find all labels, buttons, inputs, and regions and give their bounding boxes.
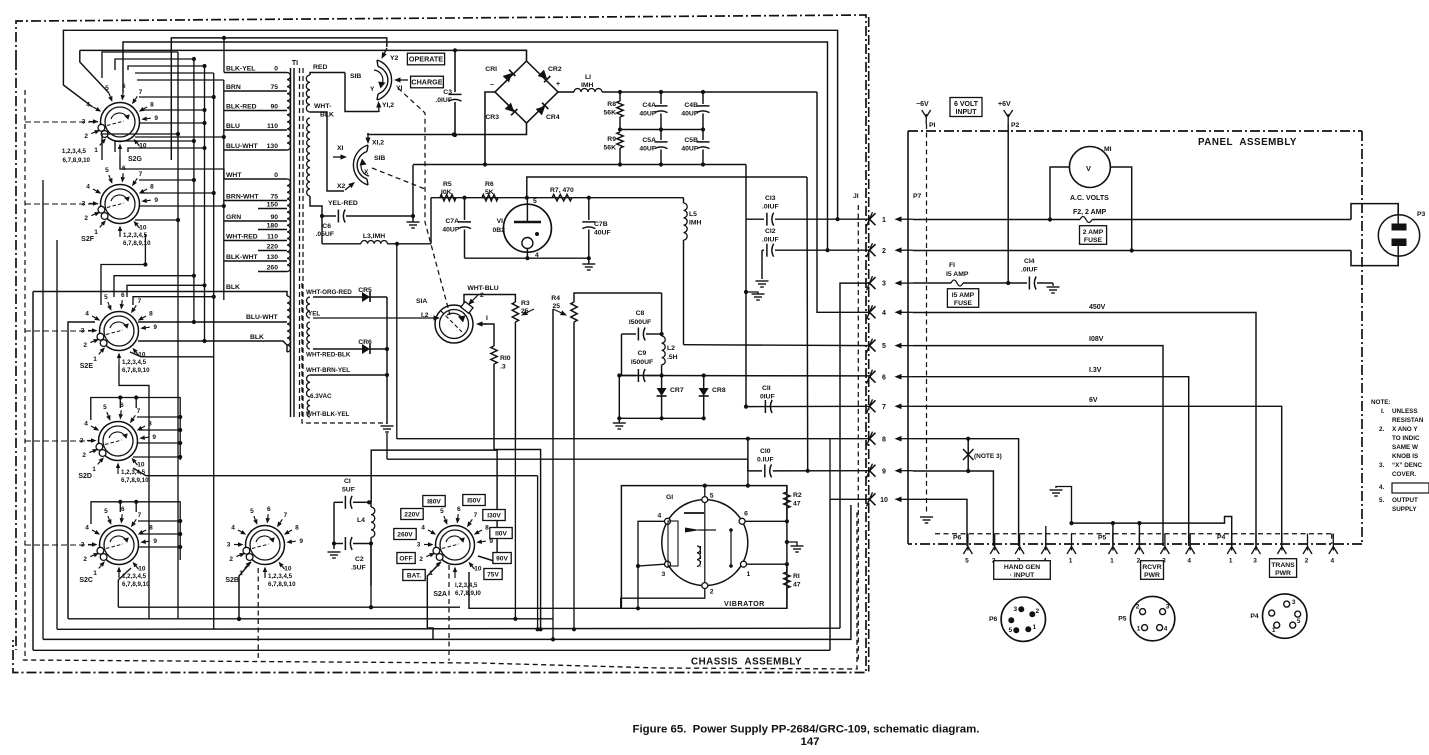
svg-text:75: 75 (270, 194, 278, 201)
S2C mech dashed (25, 544, 97, 546)
wire G1 pin1 right (747, 562, 790, 566)
svg-text:C8: C8 (636, 310, 645, 317)
T1 primary tap GRN (224, 214, 287, 221)
svg-text:OUTPUT: OUTPUT (1392, 497, 1418, 504)
svg-text:2: 2 (229, 556, 233, 563)
S2A position label 220V (401, 509, 423, 520)
S1A contact 2 arrow (468, 292, 484, 305)
G1 pin 3 (662, 561, 671, 578)
transformer T1 label (292, 60, 298, 67)
svg-text:S2F: S2F (81, 236, 95, 243)
svg-text:7: 7 (284, 512, 288, 519)
svg-text:40UF: 40UF (681, 111, 698, 118)
svg-text:RESISTAN: RESISTAN (1392, 417, 1424, 424)
svg-text:7: 7 (882, 404, 886, 411)
svg-text:2: 2 (480, 292, 484, 299)
plug P3 body (1351, 204, 1398, 266)
svg-text:VIBRATOR: VIBRATOR (724, 599, 765, 608)
svg-text:WHT-BLU: WHT-BLU (467, 285, 498, 292)
svg-text:1: 1 (94, 147, 98, 154)
P4 pin 4 (1329, 534, 1338, 565)
J1 pin 4 (867, 305, 914, 319)
svg-text:220: 220 (267, 244, 279, 251)
svg-text:4: 4 (1187, 558, 1191, 565)
capacitor C5A 40UF (639, 130, 667, 165)
svg-text:WHT-RED: WHT-RED (226, 234, 258, 241)
switch S1B section X arcs (353, 145, 368, 185)
P3 label (1417, 211, 1426, 218)
svg-text:9: 9 (882, 468, 886, 475)
ground P6-1 (1050, 487, 1072, 524)
T1 primary tap BRN 75 (224, 84, 287, 91)
svg-text:56K: 56K (604, 110, 617, 117)
left long wire d (42, 180, 44, 639)
svg-text:F2, 2 AMP: F2, 2 AMP (1073, 209, 1107, 216)
svg-text:I,2: I,2 (421, 312, 429, 319)
transformer T1 secondary winding YEL/WHT-RED-BLK (307, 322, 310, 349)
junction B+ R8 (618, 90, 622, 94)
svg-text:TO INDIC: TO INDIC (1392, 435, 1420, 442)
svg-text:C5A: C5A (642, 137, 656, 144)
svg-text:5: 5 (1008, 627, 1012, 634)
junction mid C5A (659, 127, 663, 131)
svg-text:5.: 5. (1379, 497, 1385, 504)
svg-text:P5: P5 (1118, 616, 1127, 623)
svg-text:P5: P5 (1098, 535, 1107, 542)
junction note3 bottom (966, 469, 970, 473)
left long wire e (56, 240, 58, 629)
junction CR8 top (702, 373, 706, 377)
svg-text:5: 5 (965, 558, 969, 565)
ground at C2 (328, 544, 341, 559)
svg-text:90V: 90V (496, 555, 508, 562)
contact X2 arrow (327, 118, 355, 191)
S2F mech dashed (25, 203, 98, 205)
ground at C12 (756, 281, 769, 287)
svg-text:1: 1 (882, 217, 886, 224)
svg-text:5: 5 (882, 343, 886, 350)
svg-text:P2: P2 (1011, 122, 1020, 129)
svg-text:4: 4 (421, 525, 425, 532)
S2G hook c4 (102, 52, 178, 78)
junction C6 left (320, 214, 324, 218)
svg-text:1: 1 (1110, 558, 1114, 565)
svg-text:6: 6 (267, 506, 271, 513)
2 AMP FUSE box (1080, 226, 1107, 245)
wire P5-2 drop (1138, 523, 1140, 546)
bottom bus 607 (118, 606, 460, 608)
wire C12 ground leg (761, 250, 763, 279)
wire pin9 rail C10 (748, 439, 870, 478)
P6 pin 1 (1067, 534, 1076, 565)
wire YEL to S1A (313, 315, 440, 320)
svg-text:1: 1 (94, 229, 98, 236)
diode CR3 (485, 103, 517, 121)
wire pin2 panel (913, 250, 1351, 252)
svg-text:6: 6 (744, 510, 748, 517)
svg-text:10: 10 (139, 224, 147, 231)
junction pin5 box (703, 484, 707, 488)
secondary rectifier bus (386, 297, 388, 424)
meter leads (1050, 167, 1132, 251)
svg-text:0IUF: 0IUF (760, 394, 775, 401)
svg-text:10: 10 (284, 565, 292, 572)
transformer T1 primary winding lower (287, 296, 291, 352)
P4 pin 3 (1252, 534, 1261, 565)
P5 label (1098, 535, 1107, 542)
plug P2 (1004, 110, 1020, 129)
potentiometer R3 25 (512, 300, 534, 440)
svg-text:3: 3 (417, 542, 421, 549)
svg-text:I0K: I0K (441, 189, 452, 196)
svg-text:1: 1 (1069, 558, 1073, 565)
svg-text:COVER.: COVER. (1392, 471, 1416, 478)
G1 internal contact arrow (685, 528, 716, 533)
S2D header (91, 395, 180, 460)
svg-text:450V: 450V (1089, 304, 1106, 311)
svg-text:5: 5 (103, 404, 107, 411)
wire pin8 internal rail (397, 438, 870, 440)
svg-text:RI: RI (793, 573, 800, 580)
ground vibrator right (785, 540, 804, 552)
svg-text:4: 4 (1164, 626, 1168, 633)
svg-text:8: 8 (149, 525, 153, 532)
svg-text:47: 47 (793, 501, 801, 508)
svg-text:2: 2 (1136, 604, 1140, 611)
svg-text:−: − (490, 82, 494, 89)
junction C8 L2 top (660, 332, 664, 336)
svg-text:R4: R4 (551, 295, 560, 302)
svg-text:7: 7 (139, 171, 143, 178)
svg-text:3: 3 (882, 281, 886, 288)
wire C6 to B- bus riser (412, 165, 414, 216)
svg-text:I500UF: I500UF (631, 359, 653, 366)
wire pin1 panel with fuse F2 (913, 217, 1351, 223)
ground secondary bus (381, 426, 394, 432)
svg-text:VI: VI (497, 218, 504, 225)
wire P2 feed (1007, 124, 1009, 283)
svg-text:8: 8 (149, 311, 153, 318)
svg-text:7: 7 (474, 512, 478, 519)
note3 disconnect (963, 439, 1002, 471)
svg-text:IMH: IMH (689, 220, 702, 227)
J1 pin 6 (867, 370, 914, 384)
svg-text:3: 3 (1166, 604, 1170, 611)
contact Y2 arrow (382, 48, 399, 62)
S2 bank vertical buses (135, 52, 224, 629)
S2A position label I80V (423, 496, 445, 507)
mid rail 459 (387, 433, 750, 488)
G1 pin 2 (702, 583, 714, 596)
svg-text:WHT-RED-BLK: WHT-RED-BLK (306, 352, 351, 359)
svg-text:2: 2 (1035, 608, 1039, 615)
diode CR2 (538, 66, 562, 82)
15 AMP FUSE box (947, 289, 978, 308)
diode CR1 (485, 66, 515, 82)
junction CR6 bus (385, 347, 389, 351)
Y label (370, 86, 375, 93)
svg-text:II0V: II0V (495, 530, 507, 537)
P6 pin 5 (963, 534, 972, 565)
chassis border through J1 (868, 17, 870, 672)
wire G1 pin5 up (704, 486, 706, 497)
svg-text:110: 110 (267, 123, 278, 130)
svg-text:X2: X2 (337, 183, 346, 190)
capacitor C9 1500UF (619, 350, 661, 382)
wire pin4 internal 450V riser (817, 92, 870, 312)
svg-text:+6V: +6V (998, 101, 1011, 108)
svg-text:GI: GI (666, 494, 673, 501)
junction bus C5B (701, 162, 705, 166)
S2E wiper feed (119, 364, 149, 619)
svg-text:C4B: C4B (684, 102, 698, 109)
diode CR4 (536, 103, 560, 121)
svg-text:A.C. VOLTS: A.C. VOLTS (1070, 195, 1109, 202)
svg-text:CR8: CR8 (712, 387, 726, 394)
junction V1 pin4 (525, 256, 529, 260)
wire P5-1 drop (1112, 523, 1114, 546)
rotary switch S2G (62, 83, 158, 164)
S2G contact stubs (135, 95, 226, 139)
svg-text:YI,2: YI,2 (382, 102, 394, 109)
potentiometer R4 25 (551, 293, 661, 440)
svg-text:6,7,8,9,10: 6,7,8,9,10 (121, 477, 149, 484)
svg-text:1: 1 (747, 571, 751, 578)
junction routeB pin2 (825, 248, 829, 252)
svg-text:I.3V: I.3V (1089, 367, 1102, 374)
connector face P5 (1118, 596, 1175, 640)
svg-text:C6: C6 (322, 223, 331, 230)
svg-text:S2A: S2A (433, 591, 447, 598)
wire pin3 panel with fuse F1 (913, 280, 1027, 286)
wire C9 left vert (618, 376, 620, 419)
junction bus R9 (618, 162, 622, 166)
svg-text:I,2,3,4,5: I,2,3,4,5 (455, 582, 478, 589)
S1A contact 1,2 label (421, 312, 429, 319)
svg-text:UNLESS: UNLESS (1392, 408, 1418, 415)
G1 internal reed bar (684, 512, 704, 514)
svg-text:Y2: Y2 (390, 55, 399, 62)
switch S1B X rotor arrow (360, 159, 370, 177)
bridge plus label (556, 81, 560, 88)
S2C contact stubs (138, 519, 182, 549)
svg-text:5: 5 (1297, 618, 1301, 625)
capacitor C11 01UF (760, 385, 775, 413)
S2D mech dashed (25, 440, 96, 442)
T1 primary tap BRN-WHT (224, 194, 287, 201)
wire G1 pin2 down (621, 589, 705, 609)
svg-text:I5 AMP: I5 AMP (946, 271, 969, 278)
switch S1A (435, 305, 473, 343)
junction pin3 left (636, 564, 640, 568)
svg-text:.3: .3 (500, 364, 506, 371)
S2G hook c6 (128, 64, 207, 70)
svg-text:.05UF: .05UF (315, 231, 334, 238)
resistor R6 5K (482, 181, 498, 201)
transformer T1 primary winding middle (287, 179, 290, 272)
svg-text:2: 2 (710, 589, 714, 596)
svg-text:FI: FI (949, 262, 955, 269)
bottom dashed border (23, 510, 857, 669)
S2E mech dashed (25, 330, 97, 332)
svg-text:BLK: BLK (226, 284, 240, 291)
svg-text:2: 2 (82, 452, 86, 459)
junction V1 pin5 rail (525, 196, 529, 200)
svg-text:5UF: 5UF (342, 487, 355, 494)
svg-text:4: 4 (85, 311, 89, 318)
svg-text:L2: L2 (667, 345, 675, 352)
svg-text:6,7,8,9,10: 6,7,8,9,10 (123, 240, 151, 247)
svg-text:JI: JI (853, 193, 859, 200)
svg-text:CR6: CR6 (358, 339, 372, 346)
capacitor C6 .05UF (315, 210, 413, 239)
svg-text:I30V: I30V (487, 512, 501, 519)
svg-text:40UF: 40UF (639, 146, 656, 153)
P5 pin 3 (1160, 534, 1169, 565)
S2G wiper feed (120, 155, 224, 179)
T1 primary tap BLU 110 (224, 123, 287, 130)
S2A position label I50V (463, 495, 485, 506)
svg-text:CI0: CI0 (760, 448, 771, 455)
svg-text:90: 90 (270, 214, 278, 221)
svg-text:BLU-WHT: BLU-WHT (246, 314, 279, 321)
svg-text:4: 4 (84, 421, 88, 428)
svg-text:9: 9 (154, 197, 158, 204)
left dashed mech bus (24, 90, 26, 661)
svg-text:2: 2 (83, 556, 87, 563)
J1 pin 8 (867, 432, 914, 446)
450V wire (913, 304, 1256, 546)
svg-text:3: 3 (1013, 606, 1017, 613)
transformer T1 secondary winding upper2 (307, 118, 310, 196)
svg-text:S2G: S2G (128, 156, 143, 163)
svg-text:WHT-BRN-YEL: WHT-BRN-YEL (306, 367, 350, 374)
wire C1 C2 left (333, 502, 335, 543)
junction meter left (1048, 217, 1052, 221)
wire R5 left leg (430, 198, 432, 244)
svg-text:0.IUF: 0.IUF (757, 457, 774, 464)
P6/P5/P4 cable dashed line (935, 534, 1332, 544)
T1 primary tap WHT-RED (224, 234, 287, 241)
S2F hook c4 (102, 132, 180, 160)
chassis assembly label (691, 657, 802, 668)
svg-text:HAND GEN: HAND GEN (1004, 564, 1040, 571)
S2B ganging dashed (257, 568, 259, 661)
J1 pin 1 (867, 212, 914, 226)
svg-text:OPERATE: OPERATE (409, 55, 443, 64)
svg-text:4: 4 (85, 525, 89, 532)
108V wire (913, 336, 1163, 546)
svg-text:CI: CI (344, 478, 351, 485)
svg-text:8: 8 (295, 525, 299, 532)
S2F contact stubs (135, 178, 226, 222)
svg-text:1: 1 (1032, 624, 1036, 631)
T1 primary tap BLK-YEL 0 (224, 66, 287, 73)
resistor R9 56K (604, 132, 624, 165)
svg-text:5: 5 (250, 508, 254, 515)
T1 label WHT-RED-BLK (306, 352, 351, 359)
svg-text:R9: R9 (607, 136, 616, 143)
svg-text:7: 7 (137, 408, 141, 415)
wire route B (123, 42, 828, 250)
S2A position label 90V (493, 553, 511, 564)
wire R3 to bus (513, 440, 517, 621)
T1 primary tap BLK-RED 90 (224, 104, 287, 111)
svg-text:180: 180 (267, 223, 279, 230)
svg-text:6,7,8,9,I0: 6,7,8,9,I0 (455, 590, 481, 597)
+6V label (998, 101, 1011, 108)
junction C6 right (411, 214, 415, 218)
svg-text:6: 6 (882, 374, 886, 381)
bottom bus 629 (57, 628, 840, 629)
wire WHT-BRN-YEL tap (310, 374, 387, 376)
wire route Y2 feed (171, 38, 386, 160)
svg-text:0B2: 0B2 (493, 227, 506, 234)
S1A contact 2 tab (461, 302, 473, 314)
svg-text:“X” DENC: “X” DENC (1392, 462, 1423, 469)
contact Y1 arrow (394, 77, 408, 92)
svg-text:4: 4 (1330, 558, 1334, 565)
J1 pin 7 (867, 399, 914, 413)
VIBRATOR label (724, 599, 765, 608)
svg-text:L4: L4 (357, 517, 365, 524)
vibrator G1 circle (662, 500, 748, 586)
contact X1,2 arrow (365, 133, 384, 147)
svg-text:6,7,8,9,10: 6,7,8,9,10 (122, 581, 150, 588)
svg-text:FUSE: FUSE (954, 300, 973, 307)
resistor R5 10K (440, 181, 456, 201)
svg-text:SUPPLY: SUPPLY (1392, 506, 1417, 513)
svg-text:.0IUF: .0IUF (435, 97, 452, 104)
resistor R10 .3 (481, 324, 543, 631)
svg-text:56K: 56K (604, 145, 617, 152)
pin9 wire to P6-2 (913, 471, 993, 546)
capacitor C4B 40UF (681, 92, 709, 130)
wire R4 wiper to bus (551, 440, 555, 642)
svg-text:R8: R8 (607, 101, 616, 108)
svg-text:YEL-RED: YEL-RED (328, 200, 358, 207)
svg-text:CR7: CR7 (670, 387, 684, 394)
mid rail 474 S2D-10 wire (133, 468, 540, 631)
T1 label 6.3VAC (310, 393, 332, 400)
svg-text:.5H: .5H (667, 354, 678, 361)
svg-text:CI3: CI3 (765, 195, 776, 202)
inductor L2 .5H (662, 293, 678, 376)
svg-text:.0IUF: .0IUF (1021, 267, 1038, 274)
svg-text:0: 0 (274, 66, 278, 73)
tube V1 0B2 (493, 198, 552, 259)
inductor L1 (558, 74, 620, 92)
S2A position label BAT. (403, 570, 425, 581)
svg-text:5: 5 (533, 198, 537, 205)
wire G1 pin6 right (745, 519, 789, 523)
svg-text:1,2,3,4,5: 1,2,3,4,5 (123, 232, 148, 239)
left long wire b (68, 322, 95, 619)
wire L4 down (370, 544, 372, 586)
capacitor C8 1500UF (622, 310, 662, 341)
X label (364, 169, 369, 176)
wire pin3 to bottom (636, 566, 640, 610)
pin8 wire to P6-3 (913, 439, 1019, 546)
svg-text:R3: R3 (521, 300, 530, 307)
svg-text:5: 5 (440, 508, 444, 515)
capacitor C5B 40UF (681, 130, 709, 165)
svg-text:FUSE: FUSE (1084, 237, 1103, 244)
svg-text:7: 7 (138, 512, 142, 519)
T1 primary tap 220 (258, 244, 287, 251)
svg-text:1: 1 (1272, 627, 1276, 634)
junction mid C5B (701, 127, 705, 131)
